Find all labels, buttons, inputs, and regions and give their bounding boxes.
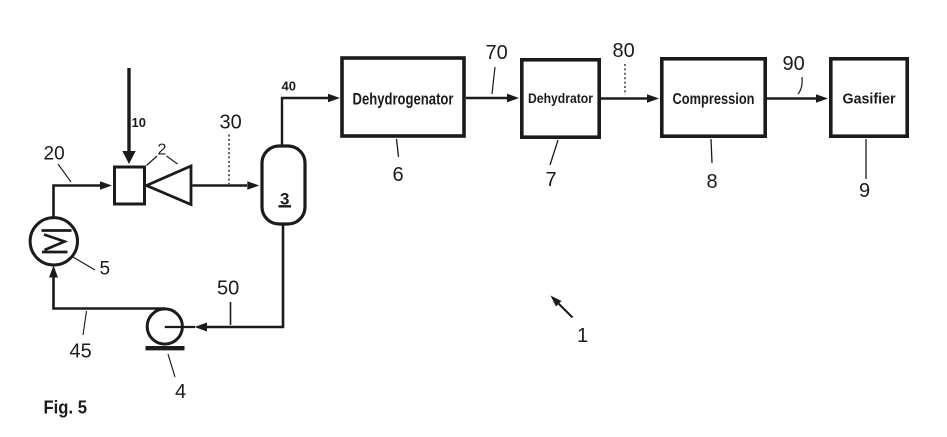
wire: vessel bottom to pump (stream 50) <box>195 225 284 332</box>
svg-text:50: 50 <box>217 278 239 300</box>
svg-text:40: 40 <box>282 79 296 94</box>
svg-text:10: 10 <box>132 115 146 130</box>
wire: heat exchanger outlet to mixer (stream 20) <box>54 181 113 219</box>
svg-text:Compression: Compression <box>673 91 755 108</box>
leader line label 2 to mixer <box>147 156 158 166</box>
wire: dehydrator to compression (stream 80) <box>601 94 659 103</box>
svg-text:9: 9 <box>859 180 870 202</box>
svg-text:Fig. 5: Fig. 5 <box>44 398 88 418</box>
leader line label 4 <box>168 354 175 377</box>
leader line label 20 <box>58 164 71 182</box>
unit 7 Dehydrator <box>522 60 599 137</box>
vessel 3 <box>262 146 305 224</box>
wire: pump outlet to heat exchanger (stream 45) <box>49 266 165 309</box>
svg-text:2: 2 <box>158 142 167 159</box>
svg-text:Gasifier: Gasifier <box>843 92 896 108</box>
leader tick label 50 <box>230 302 232 325</box>
svg-text:90: 90 <box>783 53 805 75</box>
svg-text:70: 70 <box>486 42 508 64</box>
leader line label 5 <box>73 257 95 270</box>
leader line label 8 <box>711 139 712 163</box>
label 3 inside vessel <box>279 190 292 209</box>
arrow to system label 1 <box>551 296 573 318</box>
svg-text:Dehydrogenator: Dehydrogenator <box>353 90 454 109</box>
wire: vessel top to dehydrogenator (stream 40) <box>282 94 340 145</box>
leader line label 70 <box>492 67 495 94</box>
ejector 2 (triangle) <box>147 166 192 205</box>
leader line label 6 <box>397 139 399 157</box>
pump 4 <box>146 309 196 348</box>
svg-text:8: 8 <box>707 171 718 193</box>
unit 6 Dehydrogenator <box>342 58 464 136</box>
mixer box <box>115 167 145 204</box>
leader line label 7 <box>550 140 558 165</box>
unit 8 Compression <box>662 59 765 136</box>
svg-text:7: 7 <box>546 169 557 191</box>
svg-text:20: 20 <box>44 144 65 165</box>
svg-text:Dehydrator: Dehydrator <box>528 90 593 106</box>
wire: ejector outlet to vessel (stream 30) <box>193 181 260 190</box>
leader line label 2 to ejector <box>167 156 178 164</box>
heat exchanger 5 <box>30 218 77 265</box>
dotted leader line label 80 <box>624 64 626 95</box>
svg-text:30: 30 <box>220 112 242 134</box>
svg-text:6: 6 <box>393 164 404 186</box>
wire: compression to gasifier (stream 90) <box>767 94 828 103</box>
svg-text:1: 1 <box>577 325 588 347</box>
feed arrow stream 10 <box>122 68 135 164</box>
wire: dehydrogenator to dehydrator (stream 70) <box>466 94 519 103</box>
unit 9 Gasifier <box>831 59 907 136</box>
svg-text:80: 80 <box>613 40 635 62</box>
dotted leader line label 30 <box>228 135 230 185</box>
svg-text:4: 4 <box>175 381 186 403</box>
leader line label 45 <box>83 311 87 335</box>
svg-text:5: 5 <box>100 259 111 280</box>
svg-text:45: 45 <box>70 341 92 363</box>
leader line label 9 <box>865 139 867 179</box>
leader line label 90 <box>798 77 802 94</box>
